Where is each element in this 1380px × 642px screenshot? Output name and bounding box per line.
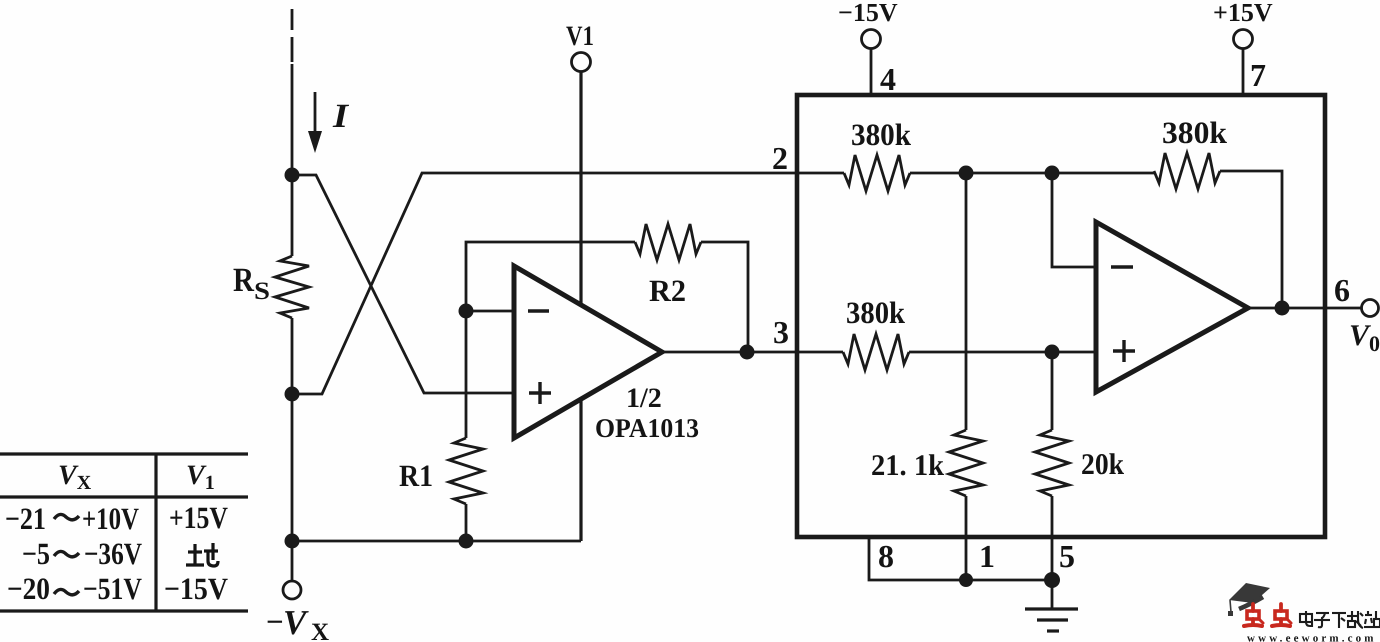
wire: pin2 net inside box (910, 172, 1154, 175)
wire: cross wire to noninverting input of U1 (292, 175, 514, 393)
wire: left vertical bus upper (291, 64, 294, 256)
wire: pin3 run to U2 noninverting input (909, 351, 1096, 354)
table row2 right: Chinese char di (ground) (186, 543, 218, 566)
node: 21.1k tap (959, 166, 974, 181)
svg-text:V1: V1 (566, 21, 594, 52)
svg-text:−5: −5 (22, 536, 50, 571)
svg-text:7: 7 (1250, 57, 1266, 93)
op-amp U2 (1096, 222, 1248, 392)
terminal -VX (283, 581, 301, 599)
wire: U2 output (1248, 307, 1361, 310)
wire: feedback right down to output (701, 242, 748, 352)
ground (1025, 580, 1078, 631)
terminal V0 pin 6 (1334, 272, 1380, 356)
svg-text:21. 1k: 21. 1k (871, 449, 944, 482)
svg-text:1/2: 1/2 (626, 383, 662, 414)
svg-text:V: V (283, 603, 309, 642)
svg-text:OPA1013: OPA1013 (595, 413, 699, 443)
terminal +15V pin 7 (1213, 0, 1273, 95)
wire: R1 bottom lead (465, 504, 468, 541)
terminal V1 (566, 21, 594, 72)
wire: V1 drop line (579, 72, 582, 541)
wire: left vertical bus lower (291, 318, 294, 581)
svg-text:1: 1 (979, 538, 995, 574)
node: R1 to rail junction (459, 534, 474, 549)
node B lower-left junction (285, 387, 300, 402)
current arrow I (308, 92, 322, 153)
IC box (797, 95, 1325, 537)
node: pin1 ground junction (959, 573, 973, 587)
svg-text:−: − (266, 604, 284, 639)
wire: cross wire to pin 2 (292, 173, 844, 394)
svg-text:V0: V0 (1349, 319, 1380, 356)
svg-text:−21: −21 (5, 501, 46, 536)
table row3 left (7, 571, 142, 606)
svg-text:−15V: −15V (838, 0, 898, 27)
resistor R2 (635, 224, 701, 260)
wire: 20k top lead (1051, 352, 1054, 430)
svg-text:2: 2 (772, 140, 788, 176)
svg-text:−20: −20 (7, 571, 50, 606)
svg-text:380k: 380k (846, 295, 906, 330)
wire: dashed input line top (291, 9, 294, 62)
table frame (0, 454, 248, 611)
node: U2 output junction (1275, 301, 1290, 316)
svg-text:R: R (233, 262, 254, 299)
svg-text:380k: 380k (1162, 115, 1228, 150)
svg-text:4: 4 (880, 61, 896, 97)
terminal -15V pin 4 (838, 0, 898, 97)
wire: U2 inverting input (1052, 173, 1096, 267)
node: pin5 ground junction (1044, 572, 1060, 588)
svg-text:+15V: +15V (1213, 0, 1273, 27)
svg-text:I: I (332, 98, 350, 135)
resistor 380k second (1154, 115, 1228, 189)
logo graduation cap (1228, 583, 1270, 616)
node: bottom-left junction (285, 534, 300, 549)
resistor 380k first (844, 117, 912, 191)
svg-text:www.eeworm.com: www.eeworm.com (1247, 633, 1377, 642)
logo chong char 2 (1272, 604, 1291, 626)
node: U1 output junction (740, 345, 755, 360)
svg-text:−15V: −15V (164, 571, 229, 606)
svg-text:S: S (254, 278, 270, 305)
svg-text:−36V: −36V (84, 536, 142, 571)
node A top-left junction (285, 168, 300, 183)
logo chong char 1 (1244, 604, 1263, 626)
wire: U1 output run to pin 3 resistor (662, 351, 843, 354)
svg-text:20k: 20k (1081, 448, 1124, 481)
svg-text:380k: 380k (851, 117, 912, 152)
svg-text:+15V: +15V (169, 500, 228, 535)
resistor R1 (449, 438, 483, 504)
node: U2 inverting tap (1045, 166, 1060, 181)
svg-text:6: 6 (1334, 272, 1350, 308)
op-amp U1 (514, 266, 662, 438)
svg-text:8: 8 (878, 538, 894, 574)
svg-text:+10V: +10V (82, 501, 139, 536)
wire: bottom rail (292, 540, 581, 543)
table row1 left (5, 501, 139, 536)
wire: U1 inverting input (466, 310, 514, 313)
svg-text:5: 5 (1059, 538, 1075, 574)
svg-text:R2: R2 (649, 273, 686, 308)
wire: R1 top lead (465, 311, 468, 438)
label 1/2 OPA1013 (595, 383, 699, 443)
wire: feedback to U2 output (1220, 171, 1282, 308)
svg-text:−51V: −51V (83, 571, 142, 606)
svg-text:R1: R1 (399, 458, 433, 493)
resistor 21.1k (871, 430, 983, 496)
svg-text:VX: VX (58, 460, 92, 494)
node: 20k tap (1045, 345, 1060, 360)
resistor RS (275, 256, 309, 318)
wire: 20k bottom lead pin 5 (1051, 496, 1054, 580)
wire: pin 8 run (869, 537, 1052, 580)
svg-text:X: X (311, 619, 329, 642)
node: U1 inverting node (459, 304, 474, 319)
wire: 21.1k top lead (965, 173, 968, 430)
svg-text:V1: V1 (186, 460, 215, 494)
resistor 380k third (843, 295, 909, 370)
resistor 20k (1035, 430, 1124, 496)
wire: feedback top run (466, 242, 635, 311)
table row2 left (22, 536, 142, 571)
logo text dian zi xia zai zhan (1300, 611, 1380, 628)
wire: 21.1k bottom lead pin 1 (965, 496, 968, 580)
svg-text:3: 3 (773, 314, 789, 350)
